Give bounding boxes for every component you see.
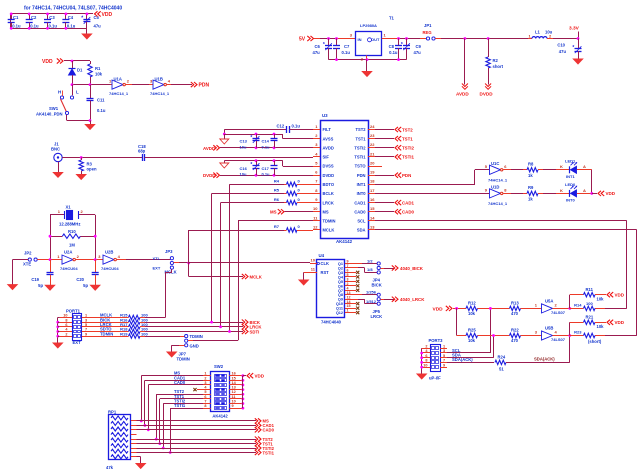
svg-text:CAD0: CAD0 bbox=[402, 210, 415, 215]
svg-text:12: 12 bbox=[347, 295, 351, 299]
wire R9 to LED0 bbox=[538, 193, 543, 195]
wire analog ground rail bbox=[224, 134, 282, 136]
no-connect X on SW2 pin 4 bbox=[193, 388, 196, 391]
inverter U1A 74HC14_1 bbox=[111, 84, 113, 86]
node C16 top bbox=[255, 159, 258, 162]
resistor R17 100 bbox=[93, 326, 129, 328]
svg-text:4: 4 bbox=[347, 286, 349, 290]
node PORT3 gnd pin bbox=[420, 352, 423, 355]
wire MCLK node up to R7 row bbox=[188, 230, 190, 263]
node LRCK junction bbox=[219, 325, 222, 328]
svg-text:Q10: Q10 bbox=[336, 302, 343, 306]
svg-text:TDMIN: TDMIN bbox=[190, 334, 203, 339]
resistor R16 100 bbox=[93, 322, 129, 324]
svg-text:12: 12 bbox=[313, 224, 318, 229]
wire TST2 row to arrow bbox=[137, 439, 257, 441]
net label 4040_BICK bbox=[395, 265, 398, 270]
wire AVDD rail to pin 3 bbox=[220, 147, 313, 149]
svg-text:1M: 1M bbox=[69, 243, 75, 248]
node R3 tap bbox=[80, 156, 83, 159]
svg-text:CAD0: CAD0 bbox=[354, 209, 366, 214]
pin 3 of SW2 bbox=[203, 384, 211, 386]
svg-text:short: short bbox=[493, 64, 504, 69]
svg-text:R8: R8 bbox=[528, 162, 534, 167]
power symbol VDD at cap bank bbox=[95, 11, 98, 16]
svg-text:470: 470 bbox=[511, 338, 519, 343]
pin 4 SIF of U3 bbox=[313, 156, 320, 158]
svg-text:SIF: SIF bbox=[323, 155, 330, 160]
svg-text:*: * bbox=[250, 135, 252, 141]
svg-text:1: 1 bbox=[443, 345, 445, 349]
wire BDTO vertical bbox=[229, 184, 231, 331]
svg-text:1/256: 1/256 bbox=[366, 290, 377, 295]
wire crystal left drop bbox=[50, 215, 52, 260]
svg-text:8: 8 bbox=[204, 404, 206, 408]
svg-text:GND: GND bbox=[190, 343, 199, 348]
svg-text:LED0: LED0 bbox=[565, 182, 576, 187]
svg-text:PDN: PDN bbox=[357, 173, 366, 178]
node SDTO-BDTO junction bbox=[228, 330, 231, 333]
svg-text:VDD: VDD bbox=[615, 320, 625, 325]
svg-text:10: 10 bbox=[313, 206, 318, 211]
svg-text:0.1u: 0.1u bbox=[292, 124, 301, 129]
svg-text:LED1: LED1 bbox=[565, 159, 576, 164]
svg-text:*: * bbox=[323, 42, 325, 48]
wire JP2 to U2A input bbox=[37, 259, 62, 261]
node CAD1 at RP1 row bbox=[144, 424, 147, 427]
svg-text:L1: L1 bbox=[535, 30, 541, 35]
svg-text:1k: 1k bbox=[528, 173, 533, 178]
pin 4 of SW2 bbox=[203, 389, 211, 391]
wire U1A to U1B bbox=[126, 84, 132, 86]
wire R11 to VDD arrow bbox=[595, 294, 606, 296]
node TSTI2 at RP1 row bbox=[162, 447, 165, 450]
svg-text:0.1u: 0.1u bbox=[342, 50, 351, 55]
wire SDTO row to arrow bbox=[145, 331, 243, 333]
svg-text:DVSS: DVSS bbox=[323, 164, 334, 169]
svg-text:JP2: JP2 bbox=[24, 250, 32, 255]
pin 6 of RP1 bbox=[131, 443, 137, 445]
pin pair 3 of PORT1 bbox=[60, 326, 72, 328]
wire regulator ground rail bbox=[329, 59, 407, 61]
svg-text:47k: 47k bbox=[106, 465, 114, 470]
net arrow PDN input bbox=[375, 175, 394, 177]
svg-text:INT0: INT0 bbox=[357, 191, 367, 196]
capacitor C5 47u electrolytic bbox=[86, 14, 88, 19]
capacitor C4 0.1u bbox=[65, 14, 67, 20]
switch SW1 AK4140_PDN bbox=[72, 85, 74, 96]
pin 15 of SW2 bbox=[229, 380, 243, 382]
svg-text:*: * bbox=[250, 162, 252, 168]
svg-text:AK4142: AK4142 bbox=[336, 239, 353, 244]
svg-text:RST: RST bbox=[321, 270, 330, 275]
wire U1C to R8 bbox=[503, 169, 511, 171]
svg-text:SW1: SW1 bbox=[49, 106, 59, 111]
pin 15 CAD0 of U3 bbox=[368, 211, 375, 213]
capacitor C7 0.1u bbox=[336, 39, 338, 46]
wire DVDD rail to pin 6 bbox=[220, 175, 313, 177]
pin 2 of SW2 bbox=[203, 380, 211, 382]
node SW2 common rail pin bbox=[242, 393, 245, 396]
pin 7 of RP1 bbox=[131, 448, 137, 450]
svg-text:H: H bbox=[58, 90, 61, 95]
wire SDA(ACK) riser bbox=[569, 336, 571, 363]
svg-text:51: 51 bbox=[499, 367, 504, 372]
pin 1 FILT of U3 bbox=[313, 129, 320, 131]
svg-text:47u: 47u bbox=[94, 23, 102, 28]
svg-text:U1D: U1D bbox=[491, 185, 499, 190]
node PORT1 gnd pin bbox=[56, 335, 59, 338]
svg-text:C9: C9 bbox=[416, 44, 422, 49]
wire R13 to U5A bbox=[521, 308, 542, 310]
svg-text:VDD: VDD bbox=[102, 12, 113, 18]
svg-text:1k: 1k bbox=[528, 196, 533, 201]
svg-text:8: 8 bbox=[65, 318, 67, 322]
no-connect X on Q3 bbox=[356, 271, 359, 274]
wire LED0 to VDD rail bbox=[577, 193, 592, 195]
resistor R23 short to SDA bbox=[570, 335, 584, 337]
svg-text:X1: X1 bbox=[65, 205, 71, 210]
jumper JP7 TDMIN select bbox=[184, 336, 186, 338]
svg-text:470: 470 bbox=[511, 311, 519, 316]
node C14 bottom bbox=[273, 146, 276, 149]
svg-text:5p: 5p bbox=[83, 283, 88, 288]
svg-text:1/2: 1/2 bbox=[367, 258, 373, 263]
svg-text:R23: R23 bbox=[574, 330, 582, 335]
power symbol VDD for SW2 bbox=[243, 375, 246, 377]
wire TSTI2 row to arrow bbox=[137, 448, 257, 450]
svg-text:21: 21 bbox=[370, 151, 375, 156]
wire SCL from PORT3 up to pullup node bbox=[447, 352, 490, 354]
no-connect X on Q12 bbox=[356, 311, 359, 314]
net label 4040_LRCK bbox=[395, 297, 398, 302]
svg-text:20: 20 bbox=[370, 160, 375, 165]
svg-text:10k: 10k bbox=[468, 338, 476, 343]
svg-text:7: 7 bbox=[443, 359, 445, 363]
svg-text:8: 8 bbox=[425, 359, 427, 363]
svg-text:0.1u: 0.1u bbox=[262, 144, 271, 149]
svg-text:C14: C14 bbox=[262, 139, 270, 144]
no-connect X on Q10 bbox=[356, 302, 359, 305]
wire VDD to D1 and R1 bbox=[64, 60, 90, 62]
svg-text:R4: R4 bbox=[274, 179, 280, 184]
wire SDA long to I2C buffers bbox=[375, 229, 637, 231]
svg-text:VDD: VDD bbox=[606, 191, 616, 196]
node PORT1 gnd pin bbox=[56, 330, 59, 333]
svg-text:K: K bbox=[560, 188, 563, 193]
svg-text:74LS07: 74LS07 bbox=[551, 337, 566, 342]
diode D1 bbox=[72, 61, 74, 68]
svg-text:U2B: U2B bbox=[105, 249, 113, 254]
wire U1B output to PDN label bbox=[167, 84, 171, 86]
wire TST1 from SW2 to RP1 row bbox=[160, 398, 203, 400]
wire U5A node up to R11 bbox=[569, 295, 571, 309]
svg-text:PDN: PDN bbox=[199, 83, 210, 89]
power arrow AVDD bbox=[462, 84, 468, 87]
svg-text:C6: C6 bbox=[315, 44, 321, 49]
svg-text:15: 15 bbox=[347, 304, 351, 308]
node C16 bottom bbox=[255, 174, 258, 177]
resistor R10 1M bbox=[50, 236, 62, 238]
svg-text:BNC: BNC bbox=[51, 147, 60, 152]
ground below C5 bbox=[82, 34, 92, 39]
capacitor C10 47u electrolytic bbox=[578, 39, 580, 49]
node PORT3 gnd pin bbox=[420, 361, 423, 364]
svg-text:1: 1 bbox=[85, 314, 87, 318]
svg-text:C20: C20 bbox=[76, 277, 84, 282]
svg-text:10k: 10k bbox=[468, 311, 476, 316]
wire BICK row to arrow bbox=[145, 322, 243, 324]
pin pair 1 of PORT1 bbox=[60, 317, 72, 319]
resistor R25 10k bbox=[466, 333, 478, 337]
svg-text:16: 16 bbox=[370, 197, 375, 202]
node PORT3 gnd pin bbox=[420, 356, 423, 359]
node U5A out bbox=[568, 307, 571, 310]
node BICK-BCLK junction bbox=[210, 321, 213, 324]
svg-text:A: A bbox=[583, 188, 586, 193]
node U5B out bbox=[568, 334, 571, 337]
pin pair 1 of PORT3 bbox=[422, 348, 431, 350]
wire CAD0 from SW2 to RP1 row bbox=[148, 384, 203, 386]
node VDD pullup tap bbox=[455, 307, 458, 310]
svg-text:47u: 47u bbox=[559, 49, 567, 54]
svg-text:C16: C16 bbox=[240, 166, 248, 171]
pin 8 of SW2 bbox=[203, 408, 211, 410]
node PORT1 gnd pin bbox=[56, 325, 59, 328]
resistor R13 470 bbox=[510, 306, 521, 310]
node C13 top bbox=[255, 133, 258, 136]
svg-text:6: 6 bbox=[204, 395, 206, 399]
pin 4 of RP1 bbox=[131, 429, 137, 431]
svg-text:XTL: XTL bbox=[153, 256, 161, 261]
svg-text:BCLK: BCLK bbox=[323, 191, 334, 196]
wire Q2 to JP4 bottom bbox=[352, 267, 358, 269]
pin 5 of RP1 bbox=[131, 439, 137, 441]
node R10 left bbox=[49, 235, 52, 238]
svg-text:10: 10 bbox=[232, 399, 236, 403]
wire TDMIN vertical bbox=[238, 221, 240, 340]
switch element 7 of SW2 bbox=[215, 402, 227, 405]
node SW2 common rail pin bbox=[242, 374, 245, 377]
svg-text:MS: MS bbox=[323, 209, 329, 214]
svg-text:U4: U4 bbox=[319, 253, 325, 258]
resistor R1 10k bbox=[88, 64, 92, 77]
wire TDMIN to pin 11 bbox=[238, 220, 313, 222]
wire JP5 common out bbox=[380, 299, 384, 301]
pin 13 SDA of U3 bbox=[368, 229, 375, 231]
svg-text:5: 5 bbox=[443, 354, 445, 358]
svg-text:TST2: TST2 bbox=[402, 127, 413, 132]
svg-text:Q8: Q8 bbox=[338, 293, 343, 297]
node C14 top bbox=[273, 133, 276, 136]
svg-text:EXT: EXT bbox=[153, 265, 161, 270]
svg-text:D1: D1 bbox=[77, 68, 83, 73]
svg-text:3: 3 bbox=[347, 277, 349, 281]
pin 10 CLK of U4 bbox=[310, 263, 317, 265]
wire LRCK row to arrow bbox=[145, 326, 243, 328]
pin 18 INT1 of U3 bbox=[368, 184, 375, 186]
net arrow TST1 bbox=[375, 138, 394, 140]
svg-text:T1: T1 bbox=[389, 16, 395, 21]
pin 5 DVSS of U3 bbox=[313, 166, 320, 168]
wire Q1 to JP4 top bbox=[352, 263, 362, 265]
svg-text:U3: U3 bbox=[322, 113, 328, 118]
capacitor C11 0.1u bbox=[90, 85, 92, 98]
svg-text:12: 12 bbox=[232, 390, 236, 394]
resistor R6 0 on LRCK bbox=[221, 202, 284, 204]
svg-text:19: 19 bbox=[370, 170, 375, 175]
svg-text:3: 3 bbox=[204, 381, 206, 385]
pin pair 4 of PORT1 bbox=[60, 331, 72, 333]
wire MCLK node to U4 CLK bbox=[189, 262, 310, 264]
svg-text:SW2: SW2 bbox=[214, 364, 224, 369]
wire LRCK vertical bbox=[220, 203, 222, 327]
svg-text:24: 24 bbox=[370, 124, 375, 129]
svg-text:VDD: VDD bbox=[42, 59, 53, 65]
svg-text:16: 16 bbox=[232, 372, 236, 376]
pin 12 of SW2 bbox=[229, 394, 243, 396]
svg-text:74HC4040: 74HC4040 bbox=[321, 319, 342, 324]
node reg gnd bbox=[366, 58, 369, 61]
wire top rail of cap bank bbox=[10, 13, 93, 15]
capacitor C18 68p bbox=[142, 154, 144, 161]
pin 17 INT0 of U3 bbox=[368, 193, 375, 195]
node C10 top bbox=[577, 37, 580, 40]
wire R21 to VDD arrow bbox=[595, 322, 606, 324]
svg-text:Q12: Q12 bbox=[336, 311, 343, 315]
svg-text:10u: 10u bbox=[240, 144, 247, 149]
resistor R8 1k bbox=[527, 168, 538, 172]
net arrow SDTI bbox=[245, 329, 248, 334]
svg-text:LRCK: LRCK bbox=[323, 200, 334, 205]
svg-text:U2A: U2A bbox=[64, 249, 72, 254]
pin 6 of SW2 bbox=[203, 398, 211, 400]
svg-text:Q5: Q5 bbox=[338, 280, 343, 284]
stub SW2 pin 4 unused bbox=[197, 389, 203, 391]
svg-text:(short): (short) bbox=[588, 339, 602, 344]
svg-text:3: 3 bbox=[443, 349, 445, 353]
svg-text:15: 15 bbox=[232, 376, 236, 380]
svg-text:TST2: TST2 bbox=[355, 127, 366, 132]
switch element 1 of SW2 bbox=[215, 375, 227, 378]
capacitor C12 0.1u on FILT bbox=[224, 129, 287, 131]
svg-text:R3: R3 bbox=[87, 161, 93, 166]
svg-text:SCL: SCL bbox=[357, 219, 366, 224]
svg-text:open: open bbox=[87, 167, 97, 172]
switch element 4 of SW2 bbox=[215, 389, 227, 392]
svg-text:SDTI: SDTI bbox=[250, 329, 260, 334]
node SW2 common rail pin bbox=[242, 384, 245, 387]
regulator GND pin wire bbox=[366, 55, 368, 59]
svg-text:3.3V: 3.3V bbox=[569, 26, 580, 32]
svg-text:R13: R13 bbox=[511, 301, 519, 306]
node TST2 at RP1 row bbox=[155, 438, 158, 441]
wire TSTI1 from SW2 to RP1 row bbox=[170, 408, 203, 410]
svg-text:Q6: Q6 bbox=[338, 284, 343, 288]
wire R8 to LED1 bbox=[538, 169, 543, 171]
svg-text:0.1u: 0.1u bbox=[67, 23, 76, 28]
node SW2 common rail pin bbox=[242, 407, 245, 410]
svg-text:JP1: JP1 bbox=[424, 23, 432, 28]
wire PORT1 ground rail bbox=[58, 317, 60, 319]
resistor R14 100 to SCL bbox=[570, 308, 584, 310]
svg-text:TSTI1: TSTI1 bbox=[263, 450, 275, 455]
svg-text:XTE: XTE bbox=[23, 262, 31, 267]
wire R25 to SDA node bbox=[478, 335, 510, 337]
pin pair 5 of PORT1 bbox=[60, 336, 72, 338]
svg-text:AVDD: AVDD bbox=[323, 145, 334, 150]
svg-text:R22: R22 bbox=[511, 328, 519, 333]
svg-text:2: 2 bbox=[204, 376, 206, 380]
capacitor C13 10u electrolytic bbox=[256, 134, 258, 138]
node C17 top bbox=[273, 159, 276, 162]
node SW2 common rail pin bbox=[242, 388, 245, 391]
power symbol VDD for LEDs bbox=[592, 193, 597, 195]
node AVDD tap bbox=[464, 37, 467, 40]
net arrow TSTI1 bbox=[375, 156, 394, 158]
ground for RP1 bbox=[136, 464, 146, 469]
svg-text:R21: R21 bbox=[586, 315, 594, 320]
IC U3 AK4142 body bbox=[321, 121, 369, 239]
wire U5B output to node bbox=[553, 335, 570, 337]
svg-text:PDN: PDN bbox=[402, 173, 411, 178]
pin 2 AVSS of U3 bbox=[313, 138, 320, 140]
svg-text:47u: 47u bbox=[414, 50, 422, 55]
svg-text:10: 10 bbox=[63, 314, 67, 318]
svg-text:6: 6 bbox=[347, 269, 349, 273]
svg-text:9: 9 bbox=[232, 404, 234, 408]
node U2B input / xtal right bbox=[94, 258, 97, 261]
svg-text:R1: R1 bbox=[95, 66, 101, 71]
wire DVDD drop upper bbox=[488, 39, 490, 58]
node SDA pullup bbox=[492, 334, 495, 337]
net arrow TST2 bbox=[375, 129, 394, 131]
ground for regulator bbox=[366, 60, 368, 72]
node TST1 at RP1 row bbox=[158, 442, 161, 445]
svg-text:PORT1: PORT1 bbox=[66, 308, 81, 313]
resistor R5 0 on BCLK bbox=[212, 193, 284, 195]
wire SDA from PORT3 up to pullup node bbox=[447, 357, 494, 359]
node C13 bottom bbox=[255, 146, 258, 149]
svg-text:R2: R2 bbox=[493, 58, 499, 63]
svg-text:REG: REG bbox=[423, 30, 432, 35]
svg-text:0.1u: 0.1u bbox=[389, 50, 398, 55]
svg-text:DVDD: DVDD bbox=[323, 173, 335, 178]
pin 21 TSTI1 of U3 bbox=[368, 156, 375, 158]
wire TSTI1 row to arrow bbox=[137, 452, 257, 454]
node SW2 common rail pin bbox=[242, 397, 245, 400]
net arrow CAD0 bbox=[258, 427, 261, 432]
svg-text:uP-I/F: uP-I/F bbox=[429, 375, 441, 380]
wire SCL long to I2C buffers bbox=[375, 220, 627, 222]
pin pair 5 of PORT3 bbox=[422, 367, 431, 369]
capacitor C3 0.1u bbox=[47, 14, 49, 20]
LED LED0 INT0 bbox=[569, 190, 571, 197]
svg-text:0.1u: 0.1u bbox=[262, 172, 271, 177]
wire BCLK vertical bbox=[211, 193, 213, 322]
net arrow TSTI2 bbox=[375, 147, 394, 149]
svg-text:TSTI2: TSTI2 bbox=[402, 146, 415, 151]
node DVDD tap bbox=[487, 37, 490, 40]
svg-text:VDD: VDD bbox=[255, 374, 265, 379]
svg-text:U1A: U1A bbox=[114, 76, 122, 81]
wire INT0 to U1D bbox=[375, 193, 489, 195]
svg-text:TSTI1: TSTI1 bbox=[174, 403, 186, 408]
svg-text:13: 13 bbox=[232, 386, 236, 390]
ground for PORT1 bbox=[53, 343, 63, 348]
ground open triangle DVSS bbox=[224, 161, 226, 163]
svg-text:C11: C11 bbox=[97, 98, 105, 103]
